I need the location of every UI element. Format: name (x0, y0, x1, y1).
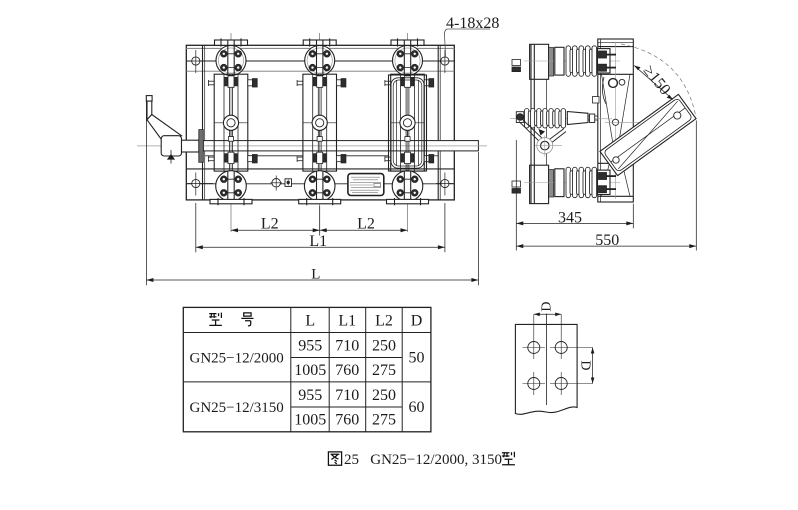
svg-text:760: 760 (335, 362, 359, 379)
dimension D horizontal (534, 313, 561, 317)
svg-text:25 GN25−12/2000, 3150: 25 GN25−12/2000, 3150 (344, 452, 502, 468)
svg-text:1005: 1005 (294, 412, 326, 429)
open blade (600, 94, 696, 175)
svg-text:550: 550 (595, 232, 619, 249)
svg-text:710: 710 (335, 337, 359, 354)
svg-text:1005: 1005 (294, 362, 326, 379)
bottom support insulator (524, 167, 620, 198)
svg-text:250: 250 (372, 337, 396, 354)
top support insulator (524, 46, 620, 77)
dimension L line (146, 101, 478, 285)
svg-text:275: 275 (372, 412, 396, 429)
ge150 dimension line (634, 66, 673, 100)
top contact hinge (609, 79, 618, 88)
svg-text:60: 60 (409, 399, 425, 416)
dimension 550 (516, 121, 696, 251)
table header text (209, 313, 222, 326)
crank linkage (519, 120, 566, 157)
svg-text:710: 710 (335, 387, 359, 404)
svg-text:D: D (540, 301, 555, 311)
svg-text:L: L (305, 312, 315, 329)
svg-text:L: L (311, 267, 320, 283)
svg-text:955: 955 (298, 337, 322, 354)
dimension L1 line (196, 203, 445, 252)
small hole and latch on bottom rail (271, 176, 292, 191)
svg-text:L2: L2 (357, 216, 375, 233)
svg-text:D: D (577, 360, 592, 370)
pad plate (515, 324, 577, 414)
svg-text:955: 955 (298, 387, 322, 404)
svg-text:D: D (411, 312, 423, 329)
svg-text:250: 250 (372, 387, 396, 404)
dimension L2 lines (231, 206, 408, 236)
svg-text:≥150: ≥150 (640, 62, 674, 98)
svg-text:GN25−12/2000: GN25−12/2000 (190, 351, 284, 367)
svg-text:GN25−12/3150: GN25−12/3150 (190, 400, 284, 416)
corner mounting holes 4-18x28 (187, 50, 454, 196)
handle crank (146, 96, 203, 164)
pole 2 assembly (297, 33, 346, 232)
nameplate (348, 174, 384, 196)
svg-text:50: 50 (409, 350, 425, 367)
svg-text:275: 275 (372, 362, 396, 379)
svg-text:760: 760 (335, 412, 359, 429)
mounting channel (512, 44, 554, 203)
pole 3 assembly (3150A double blade) (385, 33, 434, 232)
svg-text:L2: L2 (375, 312, 393, 329)
svg-text:L1: L1 (338, 312, 356, 329)
svg-text:L1: L1 (309, 233, 327, 250)
drive insulator (510, 109, 612, 129)
operating shaft (137, 141, 487, 156)
swing arc (dashed) (621, 44, 696, 115)
svg-text:L2: L2 (261, 216, 279, 233)
frame outline (186, 45, 454, 200)
dimension 345 (516, 140, 633, 251)
svg-text:345: 345 (558, 210, 582, 227)
dimension D vertical (591, 348, 595, 384)
pad holes (523, 314, 593, 395)
main panel (593, 39, 641, 202)
pole 1 assembly (208, 33, 257, 232)
